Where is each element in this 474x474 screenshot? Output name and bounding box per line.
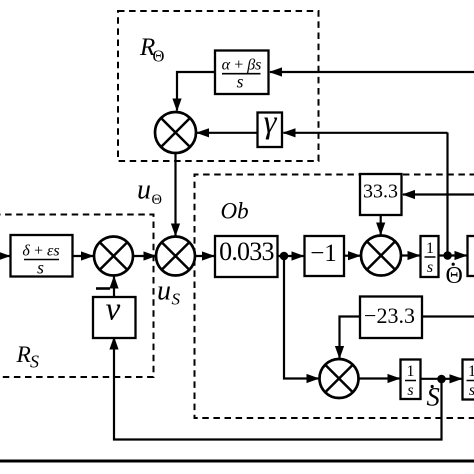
svg-text:1: 1 xyxy=(468,363,474,380)
svg-text:s: s xyxy=(469,382,474,399)
svg-text:33.3: 33.3 xyxy=(363,181,398,203)
svg-text:Θ: Θ xyxy=(153,47,165,66)
svg-text:s: s xyxy=(407,382,413,399)
svg-text:−1: −1 xyxy=(310,240,337,267)
svg-text:v: v xyxy=(106,292,121,328)
svg-text:γ: γ xyxy=(264,105,278,141)
svg-text:R: R xyxy=(16,342,31,368)
svg-text:1: 1 xyxy=(407,363,415,380)
svg-text:s: s xyxy=(237,72,244,92)
svg-text:u: u xyxy=(157,276,171,307)
svg-text:0.033: 0.033 xyxy=(219,237,274,266)
svg-text:Θ: Θ xyxy=(152,192,162,208)
svg-text:s: s xyxy=(37,258,44,278)
svg-text:S: S xyxy=(172,290,181,309)
svg-text:−23.3: −23.3 xyxy=(364,303,415,328)
svg-text:u: u xyxy=(137,175,151,206)
svg-text:Θ: Θ xyxy=(446,263,463,289)
svg-text:s: s xyxy=(427,259,433,276)
svg-text:Ob: Ob xyxy=(221,199,249,224)
svg-text:1: 1 xyxy=(426,240,434,257)
svg-text:S: S xyxy=(30,352,39,372)
